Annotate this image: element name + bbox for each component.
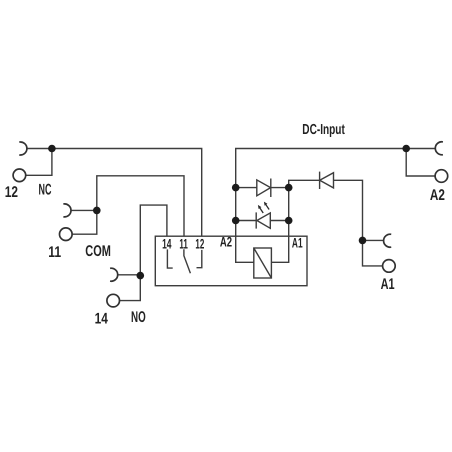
- svg-text:14: 14: [95, 310, 108, 327]
- svg-text:COM: COM: [85, 243, 111, 260]
- svg-text:NC: NC: [39, 182, 52, 199]
- svg-text:A1: A1: [381, 276, 395, 293]
- svg-text:11: 11: [179, 237, 188, 252]
- svg-text:A1: A1: [292, 236, 303, 251]
- svg-text:11: 11: [48, 244, 61, 261]
- svg-text:A2: A2: [220, 234, 232, 249]
- svg-text:NO: NO: [131, 309, 146, 326]
- svg-text:14: 14: [162, 237, 172, 252]
- svg-text:12: 12: [195, 237, 204, 252]
- svg-text:12: 12: [5, 184, 18, 201]
- svg-text:A2: A2: [430, 187, 445, 204]
- svg-text:DC-Input: DC-Input: [302, 122, 345, 138]
